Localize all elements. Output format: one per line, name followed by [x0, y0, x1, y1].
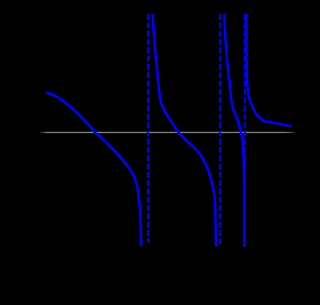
curve branch 4 — [246, 14, 291, 127]
asymptote x=-1 (dashed) — [147, 14, 149, 242]
curve branch 2 — [153, 14, 216, 247]
x-axis — [39, 132, 295, 133]
asymptote x=-1/2 (dashed) — [219, 14, 221, 246]
asymptote x=-1/3 (dashed) — [244, 14, 246, 247]
curve branch 1 — [46, 93, 141, 247]
curve branch 3 — [224, 14, 244, 247]
